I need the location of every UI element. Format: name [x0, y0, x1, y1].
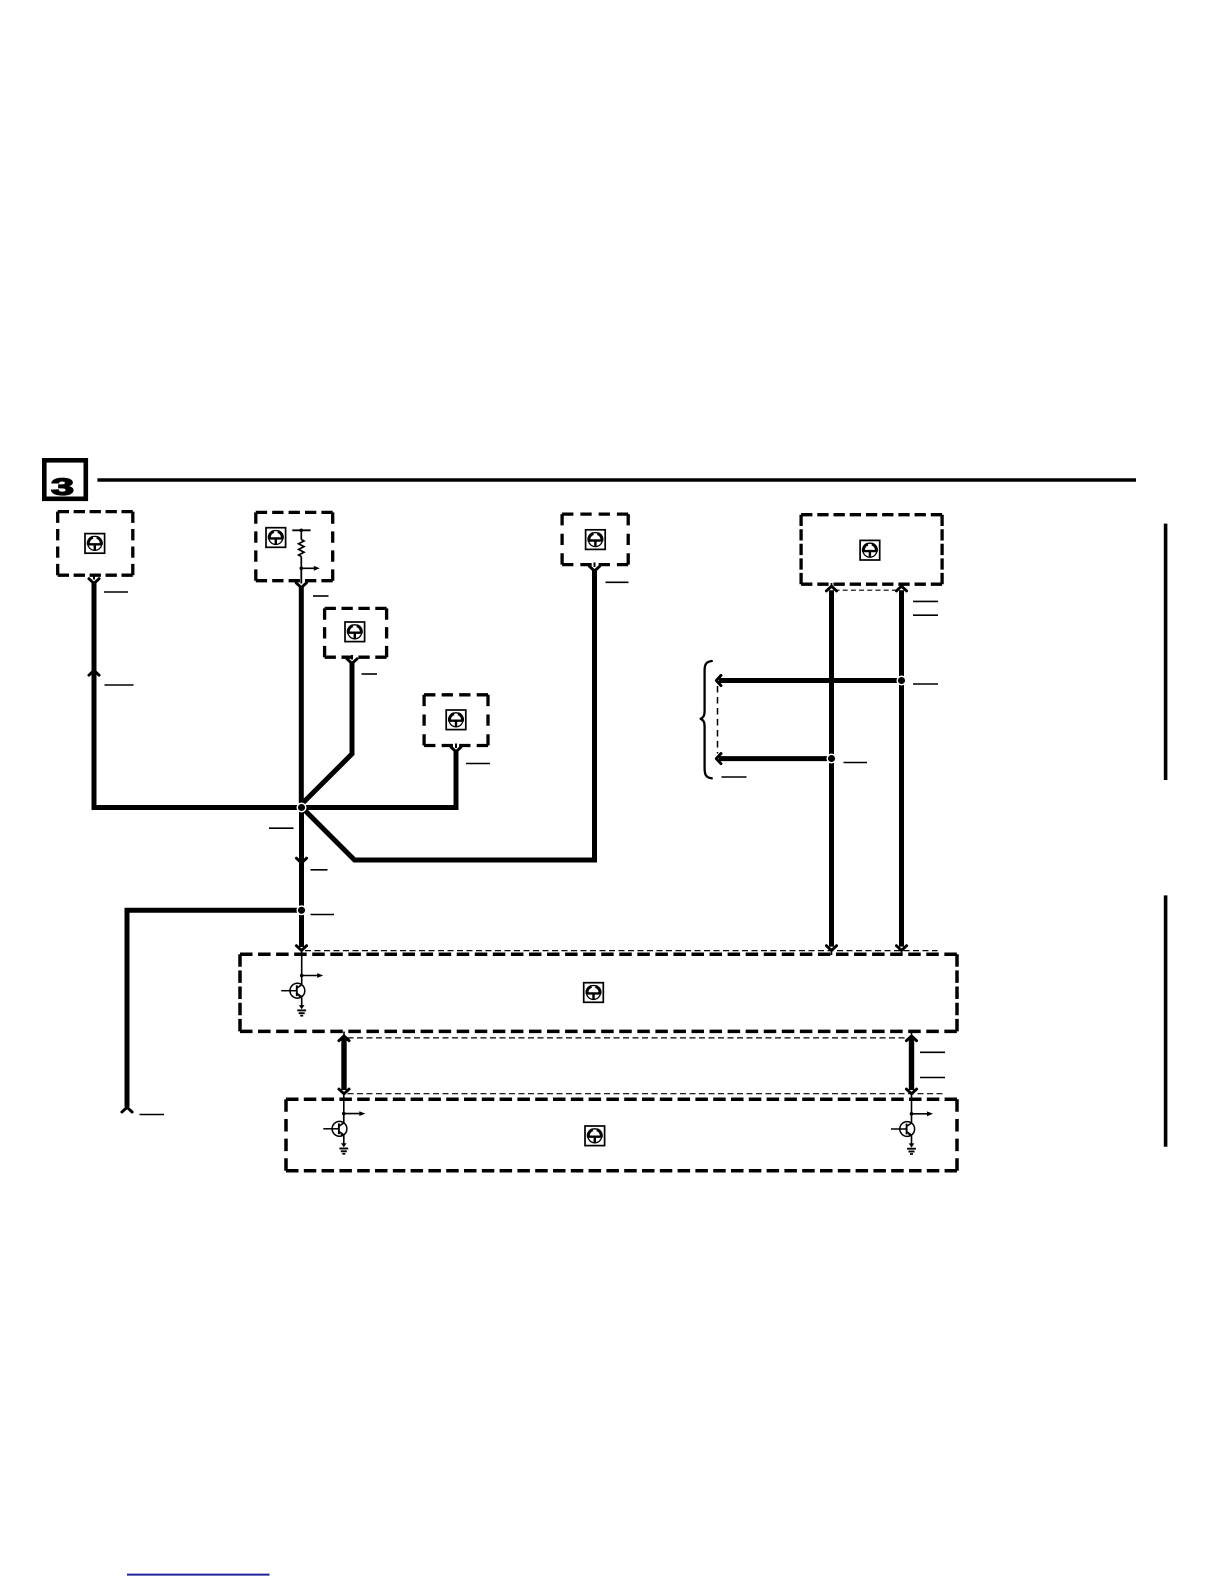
svg-text:3: 3 [51, 474, 74, 501]
